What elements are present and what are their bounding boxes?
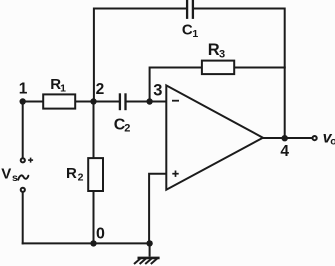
svg-text:1: 1 xyxy=(60,83,66,95)
svg-text:3: 3 xyxy=(219,48,225,60)
svg-text:R: R xyxy=(66,165,77,182)
wire main input line node1 to R1 xyxy=(23,101,44,103)
svg-text:2: 2 xyxy=(78,172,84,184)
svg-text:s: s xyxy=(12,172,18,184)
wire top rail left (node 2 up to C1) xyxy=(94,9,186,102)
node 4 junction dot xyxy=(282,135,288,141)
svg-text:o: o xyxy=(330,135,335,147)
wire R2 top (node 2 down) xyxy=(93,102,95,159)
op-amp U1 triangle xyxy=(166,85,263,189)
svg-text:4: 4 xyxy=(280,143,289,160)
svg-text:C: C xyxy=(182,21,193,38)
svg-text:2: 2 xyxy=(96,81,105,98)
svg-text:1: 1 xyxy=(19,81,28,98)
wire C2 to op-amp inverting input (through node 3) xyxy=(126,101,166,103)
node 1 junction dot xyxy=(20,98,26,104)
svg-text:R: R xyxy=(208,41,220,59)
svg-text:1: 1 xyxy=(192,28,198,40)
source top terminal (open circle with +) xyxy=(21,158,25,162)
wire source branch: node1 down to + terminal xyxy=(22,102,24,158)
ground symbol xyxy=(134,243,160,264)
resistor R3 body xyxy=(202,61,234,75)
op-amp inverting input minus sign xyxy=(172,100,179,102)
node 3 junction dot xyxy=(146,98,152,104)
node 0 junction dot xyxy=(90,240,96,246)
wire R1 to C2 (through node 2) xyxy=(75,101,119,103)
wire R2 bottom to node 0 xyxy=(93,191,95,243)
wire non-inverting input stub down to ground rail xyxy=(149,174,166,244)
op-amp non-inverting input plus sign xyxy=(172,171,178,177)
wire top rail right (C1 to right vertical down to node 4) xyxy=(194,9,285,139)
wire source bottom terminal down to bottom rail xyxy=(22,193,24,243)
capacitor C2 plates xyxy=(120,93,126,110)
wire bottom rail node 0 to ground xyxy=(23,242,150,244)
svg-text:2: 2 xyxy=(124,123,130,135)
output terminal open circle xyxy=(313,136,317,140)
wire R3 feedback branch from node 3 up and right xyxy=(150,68,202,102)
svg-text:3: 3 xyxy=(153,82,162,100)
wire R3 right side to output vertical xyxy=(234,67,285,69)
wire op-amp output to terminal xyxy=(263,137,312,139)
resistor R1 body xyxy=(43,94,75,108)
svg-text:V: V xyxy=(1,165,11,182)
ground junction dot xyxy=(146,240,152,246)
capacitor C1 plates xyxy=(187,0,193,19)
source bottom terminal (open circle) xyxy=(21,188,25,192)
source + polarity mark xyxy=(28,158,33,163)
resistor R2 body xyxy=(88,158,103,191)
node 2 junction dot xyxy=(90,98,96,104)
svg-text:0: 0 xyxy=(96,226,105,243)
